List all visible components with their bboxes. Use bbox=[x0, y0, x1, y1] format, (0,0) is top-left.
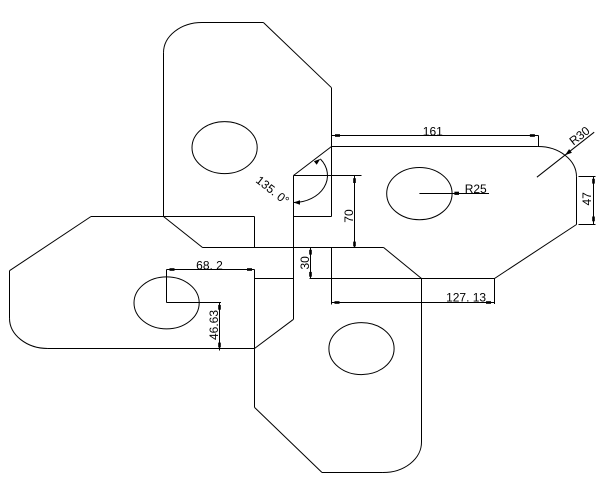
left plate bottom edge bbox=[48, 348, 255, 350]
dimension 70 bbox=[294, 176, 362, 248]
dimension 30 bbox=[298, 248, 312, 279]
top plate right edge bbox=[331, 88, 333, 217]
center vertical line 2 upper bbox=[254, 217, 256, 248]
left plate left edge bbox=[9, 271, 11, 318]
right plate corner arc R30 bbox=[538, 146, 577, 176]
center vertical line 2 lower bbox=[254, 270, 256, 408]
svg-text:30: 30 bbox=[298, 256, 312, 270]
radius leader R25 bbox=[419, 182, 489, 196]
dimension 127.13 bbox=[332, 279, 495, 305]
left plate notch edge bbox=[255, 278, 294, 280]
dimension 161 bbox=[332, 124, 539, 146]
left plate outer chamfer bbox=[10, 217, 92, 271]
bottom plate notch edge bbox=[331, 248, 333, 279]
center horizontal line bbox=[203, 247, 384, 249]
bottom plate bottom edge bbox=[322, 472, 383, 474]
angular dimension 135.0 bbox=[253, 159, 327, 208]
left plate top edge bbox=[91, 216, 255, 218]
right plate right edge bbox=[576, 177, 578, 225]
top plate corner arc R30 bbox=[164, 23, 203, 53]
right plate hole bbox=[387, 168, 452, 220]
dimension 46.63 bbox=[207, 303, 221, 351]
right plate outer chamfer bbox=[495, 225, 577, 279]
svg-text:70: 70 bbox=[342, 209, 356, 223]
left plate inner chamfer bbox=[255, 319, 294, 348]
left plate hole bbox=[134, 277, 199, 329]
top plate inner chamfer bbox=[164, 217, 203, 248]
top plate left edge bbox=[163, 53, 165, 217]
svg-text:47: 47 bbox=[580, 192, 594, 206]
svg-text:161: 161 bbox=[423, 124, 443, 138]
bottom plate outer chamfer bbox=[255, 407, 323, 472]
bottom plate corner arc R30 bbox=[383, 442, 422, 473]
right plate inner chamfer bbox=[294, 147, 332, 176]
svg-text:R25: R25 bbox=[465, 182, 487, 196]
right plate top edge bbox=[332, 146, 538, 148]
bottom plate right edge bbox=[421, 279, 423, 443]
radius leader R30 bbox=[537, 123, 594, 177]
dimension 68.2 bbox=[167, 258, 255, 302]
bottom plate hole bbox=[329, 323, 394, 375]
svg-text:46.63: 46.63 bbox=[207, 310, 221, 340]
bottom plate inner chamfer bbox=[384, 248, 422, 279]
dimension 47 bbox=[579, 177, 596, 225]
center vertical line bbox=[293, 176, 295, 320]
top plate outer chamfer bbox=[263, 23, 331, 88]
svg-text:127. 13: 127. 13 bbox=[446, 290, 486, 304]
right plate notch edge bbox=[294, 216, 332, 218]
top plate hole bbox=[192, 122, 257, 174]
svg-text:68. 2: 68. 2 bbox=[196, 258, 223, 272]
left plate corner arc R30 bbox=[9, 318, 47, 348]
center horizontal line 2 bbox=[310, 278, 495, 280]
top plate top edge bbox=[202, 22, 263, 24]
